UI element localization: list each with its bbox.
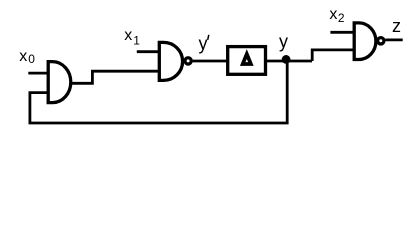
feedback wire node y down and left to G1 lower input: [30, 60, 287, 123]
label y': [199, 33, 209, 53]
wire node y to G3 lower input: [312, 50, 354, 61]
NAND gate G2 bubble: [185, 58, 191, 64]
svg-text:0: 0: [28, 52, 35, 66]
wire G1 output to G2 lower input: [70, 71, 160, 83]
label x2: [329, 6, 345, 25]
NAND gate G3 bubble: [378, 38, 384, 44]
delta symbol in U1: [243, 54, 251, 64]
svg-text:z: z: [392, 16, 401, 36]
label x0: [19, 48, 35, 66]
wire z output: [385, 39, 402, 42]
svg-text:y: y: [279, 32, 288, 52]
AND gate G1: [48, 62, 71, 103]
node y junction dot: [282, 55, 291, 64]
NAND gate G2 body: [159, 42, 182, 80]
label x1: [124, 27, 140, 48]
wire x1 input: [137, 50, 160, 53]
svg-text:x: x: [329, 6, 337, 23]
svg-text:x: x: [19, 48, 27, 65]
delay box U1: [228, 47, 266, 75]
wire x2 input: [330, 31, 354, 34]
wire x0 input: [28, 72, 48, 75]
svg-text:1: 1: [133, 34, 140, 48]
wire G2 output to delay box: [193, 60, 228, 63]
svg-text:x: x: [124, 27, 132, 44]
NAND gate G3 body: [354, 23, 376, 60]
wire delay box to node y: [265, 60, 312, 63]
svg-text:2: 2: [338, 11, 345, 25]
svg-text:y: y: [199, 33, 208, 53]
